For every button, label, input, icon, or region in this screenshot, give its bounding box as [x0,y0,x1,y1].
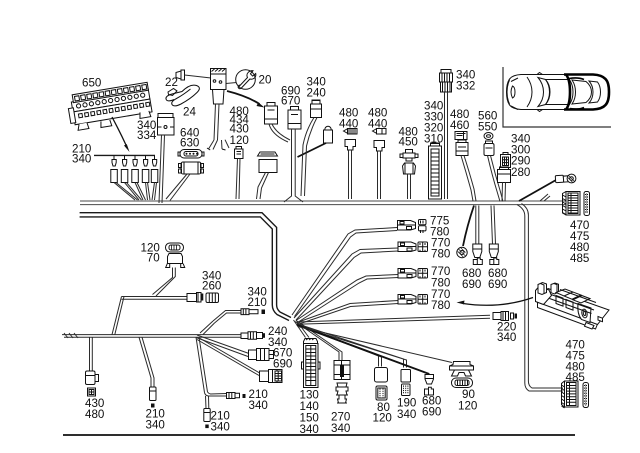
comb drop 3 [132,155,146,200]
small relay 480 (tiny box) [235,147,244,200]
svg-text:120: 120 [458,400,477,413]
connector 340/260 [187,293,203,303]
ring terminal connector 340/300 [555,174,576,183]
connector pair row3 770/780 [398,269,428,279]
svg-text:460: 460 [450,119,469,132]
svg-text:340: 340 [249,399,268,412]
wrench badge 20 [236,70,256,90]
svg-text:340: 340 [300,423,319,436]
wire to big plug right [197,338,261,376]
plug 240 (round small) [298,126,333,157]
plug 340/240 top [301,100,322,196]
valve 480/450 [400,150,418,200]
car rear highlighted section (thick) [564,75,609,110]
connector 480/460 [455,132,476,202]
arrow relay to 780 [463,298,533,306]
svg-text:630: 630 [180,137,199,150]
wire row 240/340 connector [241,332,265,340]
svg-text:22: 22 [165,76,178,89]
wire to 680/690 bottom (solid) [297,325,429,374]
strip connector 340/330/320/310 [429,143,442,199]
connector pair row1 775/780 [398,220,427,234]
ring terminal 680/690 first [457,247,467,257]
oval connector 120 [166,243,184,252]
arrow from amplifier to 690/670 plug [227,91,260,104]
frame: car inset corner [503,67,611,127]
wire to 90/120 [298,327,453,363]
wire row1 775/780 [292,228,397,317]
connector 670/690 [249,349,274,361]
svg-text:340: 340 [331,422,350,435]
wire stub into trunk right [540,194,550,201]
connector 210/340 first [150,387,157,408]
wire 220/340 [297,315,490,324]
connector 220/340 [493,312,517,321]
pin strip beside 470 connector [584,192,590,216]
connector pair row4 770/780 [398,295,428,305]
wire to 80/120 [297,324,382,367]
connector 430/480 [86,371,99,396]
antenna amplifier connector (item with 22/20) [207,69,229,151]
svg-text:550: 550 [478,120,497,133]
wire to 130 strip [294,320,310,338]
wire to 210/340 bottom2 [196,337,208,392]
relay module box [536,283,610,330]
harness tip hatch [64,333,78,338]
svg-text:260: 260 [202,280,221,293]
bullet 480/440 first [344,129,358,200]
svg-text:240: 240 [307,86,326,99]
plug 670 (middle) [288,107,301,130]
right vertical wire pair from trunk [517,204,563,392]
svg-text:310: 310 [424,133,443,146]
svg-text:340: 340 [397,408,416,421]
svg-text:780: 780 [431,248,450,261]
ring terminal wire top right [519,180,556,201]
comb drop 4 [142,155,150,200]
connector 434/430 trapezoid [257,152,278,199]
connector 270/340 [334,361,350,404]
connector plug (wide) [260,370,283,383]
wire row 340/210 mid [213,311,241,324]
svg-text:340: 340 [497,331,516,344]
comb bus wire 210/340 [94,154,155,156]
wire to 190/340 [298,324,407,368]
wire row4 770/780 [297,301,398,325]
bullet 680/690 second [476,206,479,245]
svg-text:210: 210 [248,296,267,309]
relay 340/334 [158,113,175,203]
svg-text:332: 332 [456,80,475,93]
svg-text:690: 690 [462,278,481,291]
connector 80/120 [375,368,388,401]
wire row3 770/780 [296,275,398,323]
wire to 270/340 [295,321,342,360]
svg-text:440: 440 [368,117,387,130]
svg-text:340: 340 [72,152,91,165]
wire drop 430/480 [90,337,93,371]
connector 210/340 bullet (mid right) [227,393,246,399]
ring wire 680 [463,206,474,247]
connector 560/550 [484,133,503,202]
svg-text:340: 340 [211,421,230,434]
pin strip beside lower 470 connector [583,383,589,408]
bundle wire to trunk (690/670/240) [284,129,303,202]
svg-text:440: 440 [339,117,358,130]
svg-text:450: 450 [399,136,418,149]
svg-text:280: 280 [511,166,530,179]
svg-text:70: 70 [147,251,160,264]
striped connector 260 [206,293,219,303]
connector 90/120 [450,362,474,388]
svg-text:20: 20 [259,74,272,87]
connector 190/340 [401,370,411,396]
comb drop 2 [121,155,141,200]
wire trunk A (main roof harness, double line) [80,201,567,205]
car top view [507,73,610,112]
wire lower-left harness main line [62,333,241,338]
connector pair row2 770/780 [398,242,428,252]
plug 690 (left) [265,103,291,143]
connector 340/332 (top, tall) [440,70,453,200]
connector 280 [498,167,511,202]
connector 290 grid [501,153,511,168]
wire branch 340/260 [112,297,187,335]
bullet 680/690 third [491,206,496,245]
arrow from 650 to comb [112,117,126,145]
connector 340/210 mid [241,309,265,315]
wire trunk B (lower feed, bends down to fan point) [80,213,291,321]
comb drop 1 [111,155,138,200]
svg-text:485: 485 [566,371,585,384]
svg-text:485: 485 [570,252,589,265]
push pin 22 [176,70,237,84]
cable tie 24 [166,85,199,106]
comb drop 5 [151,155,158,200]
svg-text:334: 334 [137,129,157,142]
bullet 480/440 second [373,129,387,200]
connector 470 lower (striped) [562,381,579,408]
svg-text:690: 690 [422,405,441,418]
svg-text:690: 690 [488,278,507,291]
fan point wires [292,228,490,375]
svg-text:120: 120 [373,412,392,425]
svg-text:24: 24 [183,105,196,118]
svg-text:780: 780 [431,299,450,312]
frame: bottom border [63,434,575,436]
svg-text:340: 340 [146,419,165,432]
connector 70 trapezoid [166,254,185,268]
connector 640/630 oval [178,150,204,159]
connector 130/140/150/340 tall strip [302,339,321,388]
svg-text:480: 480 [85,408,104,421]
trunk A end connector 470/475/480/485 [563,192,581,216]
connector block 650 [66,82,153,132]
svg-text:670: 670 [281,95,300,108]
connector 680/690 bottom [425,375,434,396]
wire to 670/690 plug [196,335,249,357]
wire row2 770/780 [294,248,398,320]
svg-text:690: 690 [273,358,292,371]
svg-text:650: 650 [82,77,101,90]
wire 120/70 to branch [153,268,176,297]
connector 640/630 clamp [166,162,204,201]
wire stub + connector 210/340 bottom2 [206,396,209,409]
wire drop 210/340 first [139,337,154,387]
svg-text:120: 120 [230,134,249,147]
